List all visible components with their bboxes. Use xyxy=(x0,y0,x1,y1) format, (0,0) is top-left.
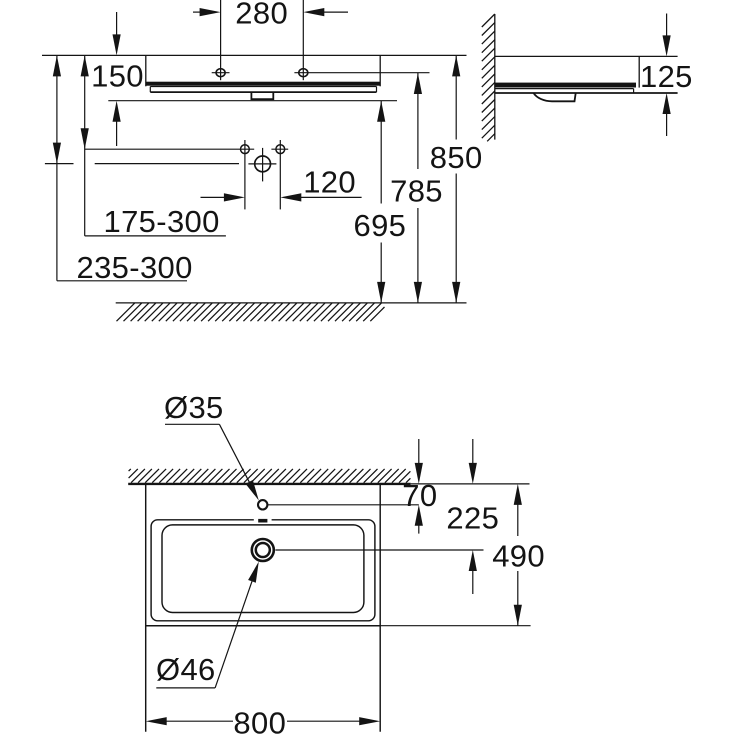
svg-text:785: 785 xyxy=(390,174,443,209)
svg-text:175-300: 175-300 xyxy=(104,204,220,239)
svg-text:490: 490 xyxy=(492,538,545,573)
svg-text:150: 150 xyxy=(91,59,144,94)
svg-text:850: 850 xyxy=(430,140,483,175)
svg-text:125: 125 xyxy=(640,59,693,94)
svg-text:235-300: 235-300 xyxy=(77,250,193,285)
svg-text:225: 225 xyxy=(446,500,499,535)
svg-text:800: 800 xyxy=(233,705,286,735)
svg-text:Ø35: Ø35 xyxy=(164,390,224,425)
svg-text:Ø46: Ø46 xyxy=(156,652,216,687)
svg-text:280: 280 xyxy=(235,0,288,30)
svg-text:70: 70 xyxy=(402,478,437,513)
svg-text:695: 695 xyxy=(354,208,407,243)
svg-text:120: 120 xyxy=(303,164,356,199)
